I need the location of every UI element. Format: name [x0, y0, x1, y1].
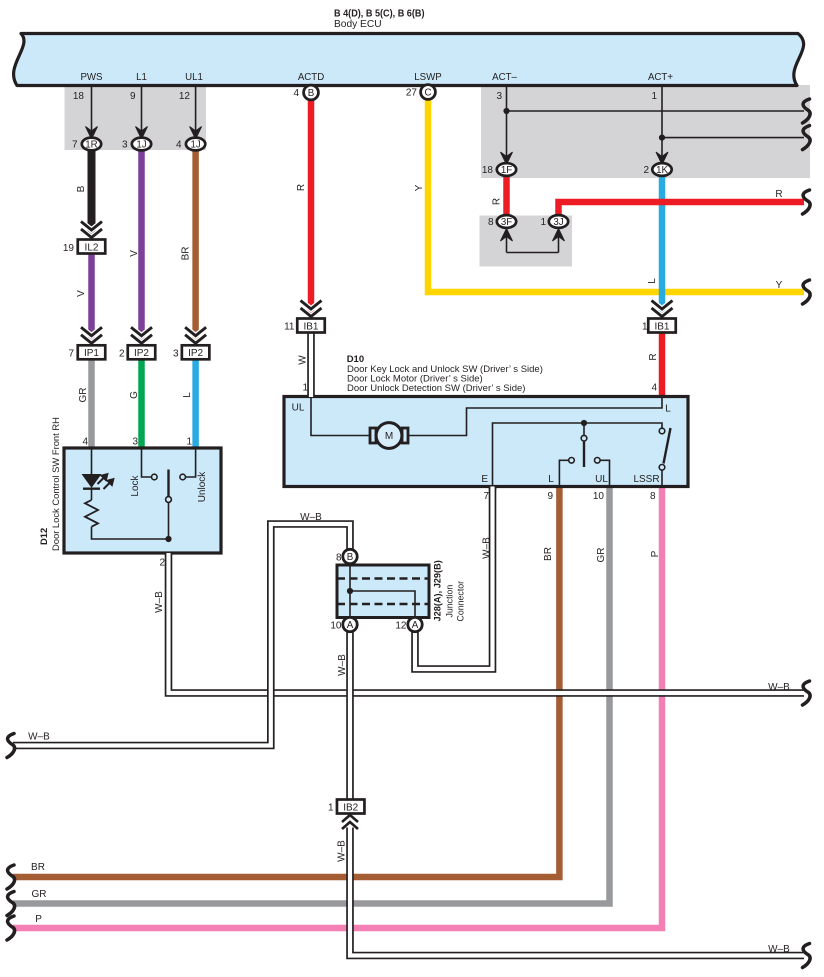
svg-text:PWS: PWS	[80, 72, 103, 83]
svg-text:1: 1	[642, 322, 648, 333]
svg-text:Unlock: Unlock	[197, 471, 208, 503]
svg-text:3: 3	[496, 91, 502, 102]
svg-text:V: V	[76, 290, 87, 297]
svg-text:P: P	[35, 914, 42, 925]
svg-text:27: 27	[406, 88, 418, 99]
svg-text:A: A	[412, 620, 419, 631]
svg-text:W–B: W–B	[768, 682, 790, 693]
svg-text:IL2: IL2	[85, 242, 99, 253]
svg-text:4: 4	[293, 88, 299, 99]
svg-text:GR: GR	[78, 388, 89, 403]
svg-text:IB1: IB1	[303, 321, 318, 332]
svg-text:Door Unlock Detection SW (Driv: Door Unlock Detection SW (Driver’ s Side…	[347, 383, 525, 394]
svg-text:3: 3	[132, 437, 138, 448]
svg-text:B: B	[308, 88, 315, 99]
svg-text:ACTD: ACTD	[298, 72, 324, 83]
svg-text:W–B: W–B	[482, 537, 493, 559]
svg-text:W–B: W–B	[337, 654, 348, 676]
svg-text:Body ECU: Body ECU	[334, 19, 382, 30]
svg-text:R: R	[296, 184, 307, 191]
svg-text:9: 9	[130, 91, 136, 102]
svg-text:10: 10	[330, 621, 342, 632]
svg-text:IP2: IP2	[188, 348, 203, 359]
svg-text:11: 11	[284, 322, 295, 333]
svg-text:L: L	[647, 278, 658, 284]
svg-text:Lock: Lock	[130, 474, 141, 496]
svg-text:7: 7	[483, 491, 489, 502]
svg-text:2: 2	[159, 558, 165, 569]
svg-text:J28(A), J29(B): J28(A), J29(B)	[433, 560, 443, 621]
svg-text:4: 4	[82, 437, 88, 448]
svg-text:IB2: IB2	[343, 802, 358, 813]
svg-text:1: 1	[328, 803, 334, 814]
svg-text:R: R	[492, 198, 503, 205]
svg-text:8: 8	[488, 217, 494, 228]
svg-text:L: L	[548, 474, 554, 485]
svg-text:1J: 1J	[190, 140, 200, 151]
svg-text:UL: UL	[292, 403, 305, 414]
svg-text:1: 1	[651, 91, 657, 102]
svg-text:W–B: W–B	[28, 732, 50, 743]
svg-text:1R: 1R	[85, 140, 97, 151]
svg-text:12: 12	[395, 621, 407, 632]
svg-text:1F: 1F	[501, 165, 512, 176]
svg-text:1K: 1K	[656, 165, 668, 176]
svg-text:M: M	[385, 431, 393, 442]
svg-text:18: 18	[482, 165, 494, 176]
svg-text:12: 12	[179, 91, 191, 102]
svg-text:A: A	[347, 620, 354, 631]
svg-text:10: 10	[593, 491, 605, 502]
svg-text:BR: BR	[181, 246, 192, 260]
svg-text:8: 8	[650, 491, 656, 502]
svg-text:IP2: IP2	[134, 348, 149, 359]
svg-text:3: 3	[173, 349, 179, 360]
svg-text:4: 4	[176, 140, 182, 151]
svg-text:W: W	[297, 355, 308, 365]
svg-text:GR: GR	[596, 548, 607, 563]
svg-text:7: 7	[72, 140, 78, 151]
svg-text:2: 2	[643, 165, 649, 176]
svg-text:B 4(D), B 5(C), B 6(B): B 4(D), B 5(C), B 6(B)	[334, 8, 425, 20]
svg-text:3F: 3F	[501, 217, 512, 228]
svg-text:G: G	[129, 391, 140, 399]
svg-text:18: 18	[73, 91, 85, 102]
svg-text:8: 8	[336, 553, 342, 564]
svg-text:B: B	[76, 185, 87, 192]
svg-text:1: 1	[186, 437, 192, 448]
svg-text:B: B	[347, 552, 354, 563]
svg-text:3: 3	[122, 140, 128, 151]
svg-text:C: C	[424, 87, 431, 98]
svg-text:2: 2	[119, 349, 125, 360]
svg-text:V: V	[129, 250, 140, 257]
svg-text:L1: L1	[136, 72, 147, 83]
svg-text:P: P	[650, 550, 661, 557]
svg-text:LSWP: LSWP	[414, 72, 441, 83]
svg-text:R: R	[775, 189, 782, 200]
svg-text:9: 9	[547, 491, 553, 502]
svg-text:LSSR: LSSR	[633, 474, 659, 485]
svg-text:UL: UL	[595, 474, 608, 485]
svg-text:W–B: W–B	[300, 512, 322, 523]
svg-text:L: L	[665, 404, 671, 415]
svg-text:E: E	[481, 474, 488, 485]
svg-text:GR: GR	[32, 889, 47, 900]
svg-text:4: 4	[651, 383, 657, 394]
svg-text:IB1: IB1	[654, 321, 669, 332]
svg-text:7: 7	[68, 349, 74, 360]
svg-text:BR: BR	[543, 547, 554, 561]
svg-text:W–B: W–B	[337, 840, 348, 862]
svg-text:W–B: W–B	[768, 944, 790, 955]
svg-text:3J: 3J	[553, 217, 563, 228]
svg-text:BR: BR	[31, 862, 45, 873]
svg-text:W–B: W–B	[154, 591, 165, 613]
svg-text:Door Lock Control SW Front RH: Door Lock Control SW Front RH	[50, 417, 61, 551]
svg-text:Y: Y	[776, 280, 783, 291]
svg-text:ACT–: ACT–	[492, 72, 517, 83]
svg-text:Connector: Connector	[456, 581, 466, 622]
svg-text:R: R	[648, 353, 659, 360]
svg-text:ACT+: ACT+	[648, 72, 673, 83]
svg-text:1J: 1J	[136, 140, 146, 151]
svg-text:Junction: Junction	[445, 585, 455, 618]
svg-text:19: 19	[63, 243, 75, 254]
svg-text:L: L	[182, 392, 193, 398]
svg-text:Y: Y	[414, 184, 425, 191]
svg-text:1: 1	[540, 217, 546, 228]
svg-text:IP1: IP1	[84, 348, 99, 359]
svg-text:D12: D12	[38, 528, 49, 545]
svg-text:UL1: UL1	[185, 72, 203, 83]
